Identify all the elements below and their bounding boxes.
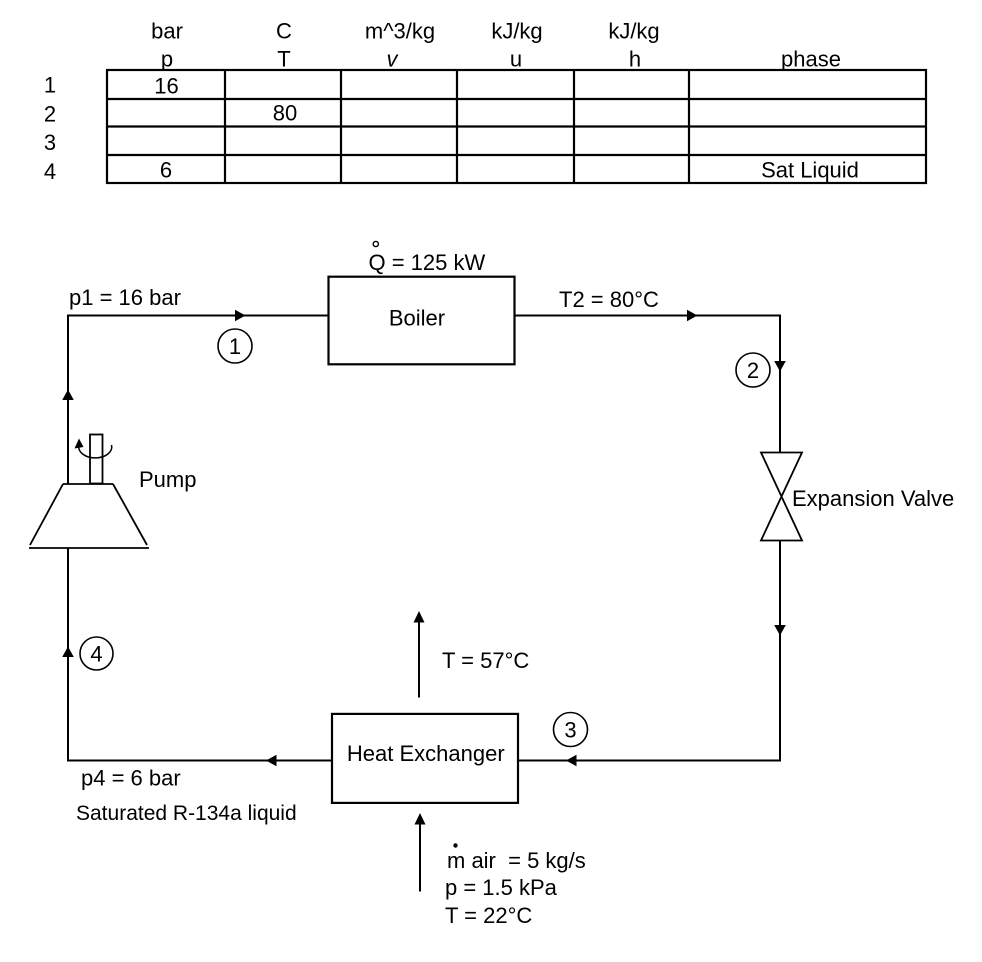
svg-text:2: 2: [44, 102, 56, 127]
table header symbols row: [161, 47, 841, 72]
wire right upper: [779, 315, 781, 453]
svg-text:T = 22°C: T = 22°C: [445, 903, 532, 928]
svg-text:p1 = 16 bar: p1 = 16 bar: [69, 285, 181, 310]
svg-text:p = 1.5 kPa: p = 1.5 kPa: [445, 875, 558, 900]
svg-text:4: 4: [44, 159, 56, 184]
svg-text:bar: bar: [151, 19, 183, 44]
svg-text:T2 = 80°C: T2 = 80°C: [559, 287, 659, 312]
svg-text:T = 57°C: T = 57°C: [442, 648, 529, 673]
boiler box B1: [329, 277, 515, 365]
wire top-right: [515, 315, 781, 317]
hot air out arrow: [414, 611, 425, 698]
wire left upper: [67, 317, 69, 485]
svg-text:Boiler: Boiler: [389, 306, 445, 331]
label m air: [447, 843, 586, 873]
arrow down on right wire: [774, 361, 786, 372]
svg-text:Expansion Valve: Expansion Valve: [792, 486, 954, 511]
wire bottom-right: [518, 760, 780, 762]
arrow left on bottom-right wire: [566, 755, 577, 767]
wire bottom-left: [67, 760, 332, 762]
arrow left on bottom-left wire: [266, 755, 277, 767]
svg-text:v: v: [387, 47, 400, 72]
pump rotation arc: [75, 439, 112, 458]
arrow down on right lower wire: [774, 625, 786, 636]
svg-text:p: p: [161, 47, 173, 72]
svg-text:h: h: [629, 47, 641, 72]
arrow up on left wire: [62, 647, 74, 658]
svg-text:4: 4: [90, 642, 102, 667]
svg-text:kJ/kg: kJ/kg: [608, 19, 659, 44]
svg-text:kJ/kg: kJ/kg: [491, 19, 542, 44]
wire right lower: [779, 541, 781, 762]
heat exchanger box HX1: [332, 714, 518, 803]
table cell values: [154, 74, 859, 183]
expansion valve V1: [761, 453, 802, 541]
svg-text:80: 80: [273, 101, 297, 126]
air in arrow: [415, 813, 426, 892]
svg-text:Q = 125 kW: Q = 125 kW: [369, 250, 486, 275]
svg-text:Heat Exchanger: Heat Exchanger: [347, 741, 505, 766]
svg-text:u: u: [510, 47, 522, 72]
table row labels: [44, 73, 56, 185]
svg-text:2: 2: [747, 358, 759, 383]
arrow right on top-left wire: [235, 310, 246, 322]
node circle 4: [80, 637, 113, 670]
svg-text:6: 6: [160, 158, 172, 183]
node circle 3: [554, 713, 588, 747]
svg-text:T: T: [277, 47, 290, 72]
wire top-left: [67, 315, 329, 317]
svg-text:1: 1: [44, 73, 56, 98]
svg-text:Saturated R-134a liquid: Saturated R-134a liquid: [76, 802, 297, 825]
svg-text:m air = 5 kg/s: m air = 5 kg/s: [447, 848, 586, 873]
Q dot label: [369, 241, 486, 275]
arrow right on top-right wire: [687, 310, 698, 322]
wire left lower: [67, 548, 69, 762]
svg-text:p4 = 6 bar: p4 = 6 bar: [81, 766, 181, 791]
pump P1: [29, 435, 149, 549]
svg-text:16: 16: [154, 74, 178, 99]
table header units row: [151, 19, 660, 44]
svg-text:phase: phase: [781, 47, 841, 72]
svg-text:C: C: [276, 19, 292, 44]
svg-text:1: 1: [229, 334, 241, 359]
arrow up on left upper wire: [62, 390, 74, 401]
svg-text:3: 3: [44, 130, 56, 155]
svg-text:Sat Liquid: Sat Liquid: [761, 158, 859, 183]
svg-text:3: 3: [564, 718, 576, 743]
node circle 1: [218, 329, 252, 363]
svg-text:m^3/kg: m^3/kg: [365, 19, 435, 44]
svg-text:Pump: Pump: [139, 467, 196, 492]
node circle 2: [736, 353, 770, 387]
table grid: [107, 70, 926, 183]
